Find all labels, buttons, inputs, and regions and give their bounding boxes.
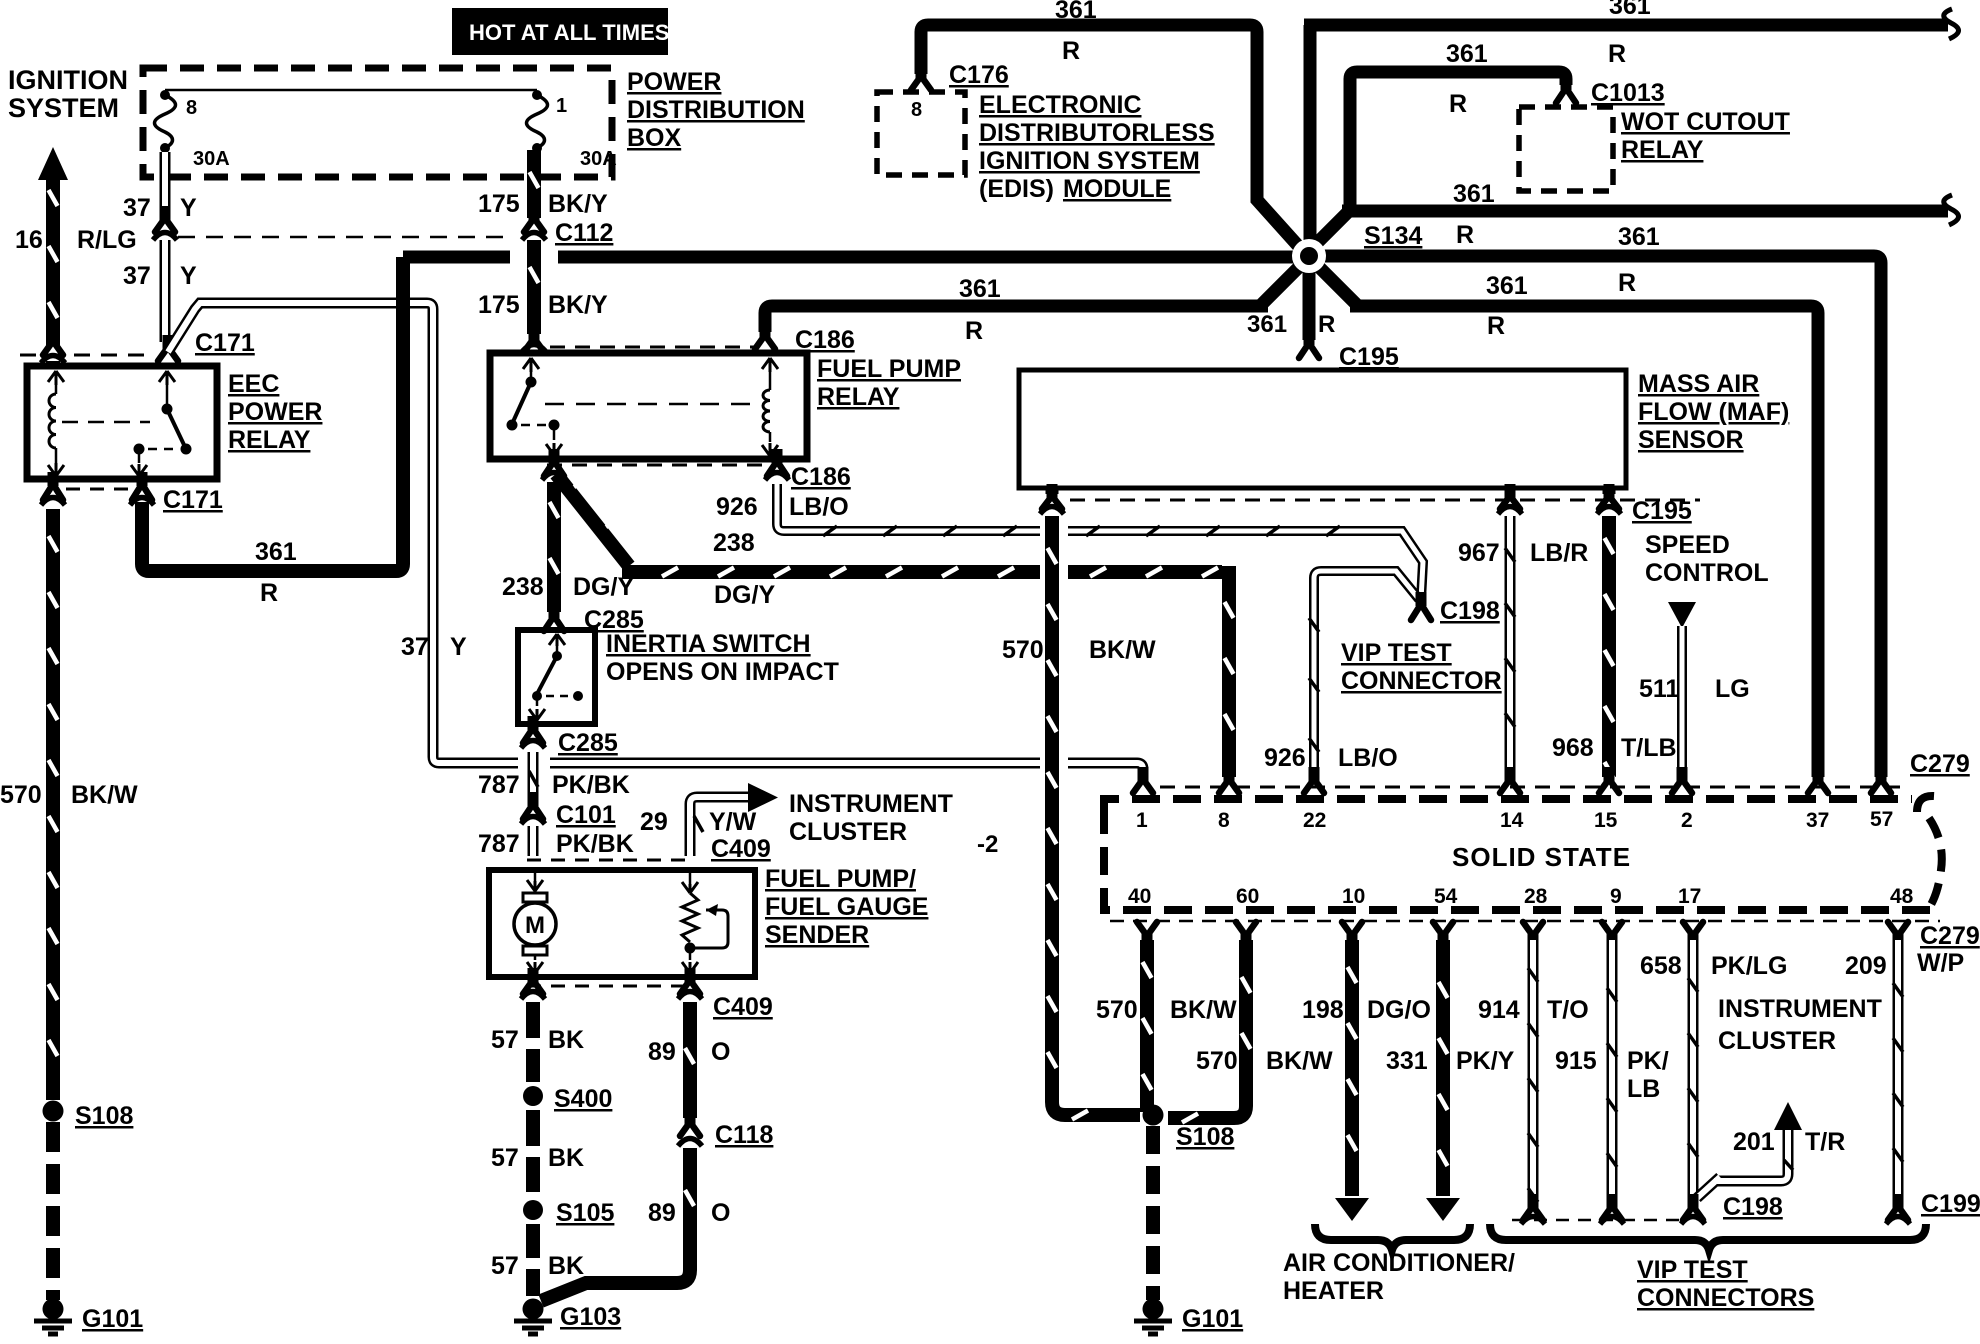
svg-text:BK/W: BK/W [71, 781, 138, 809]
wire 361 R to WOT cutout relay (C1013) [1350, 72, 1566, 215]
svg-text:R: R [1618, 269, 1636, 297]
connector C409 stub 57 [528, 968, 539, 982]
svg-text:INERTIA SWITCH: INERTIA SWITCH [606, 630, 811, 658]
svg-text:C195: C195 [1339, 343, 1399, 371]
arrowhead 198 wire [1335, 1198, 1369, 1221]
inertia switch box [518, 630, 595, 724]
svg-text:C279: C279 [1910, 750, 1970, 778]
svg-text:SPEED: SPEED [1645, 531, 1730, 559]
C279 lower dashed line [1110, 920, 1940, 923]
wire dashed to ground G101 right [1146, 1126, 1160, 1300]
svg-text:570: 570 [1196, 1047, 1238, 1075]
svg-text:C101: C101 [556, 801, 616, 829]
svg-text:W/P: W/P [1917, 949, 1964, 977]
wire 361 R junction to C279 pin 37 [1315, 263, 1818, 777]
svg-text:S108: S108 [1176, 1123, 1234, 1151]
svg-text:DISTRIBUTION: DISTRIBUTION [627, 96, 805, 124]
svg-text:BK/Y: BK/Y [548, 291, 608, 319]
stub C279 pin 54 [1438, 934, 1449, 948]
EEC relay coil-switch dashed link [62, 421, 150, 424]
svg-text:CLUSTER: CLUSTER [1718, 1027, 1836, 1055]
svg-text:37: 37 [123, 194, 151, 222]
splice S134 junction ring [1292, 239, 1326, 273]
svg-text:RELAY: RELAY [1621, 136, 1704, 164]
svg-text:R: R [1318, 311, 1335, 338]
svg-text:361: 361 [1247, 311, 1287, 338]
svg-text:LB/O: LB/O [1338, 744, 1398, 772]
power distribution box (dashed) [143, 68, 612, 177]
svg-text:22: 22 [1303, 809, 1326, 832]
svg-text:361: 361 [1453, 180, 1495, 208]
svg-text:C285: C285 [558, 729, 618, 757]
svg-text:C195: C195 [1632, 497, 1692, 525]
connector stub C279 pin 15 [1604, 767, 1615, 781]
svg-text:361: 361 [1055, 0, 1097, 24]
svg-text:15: 15 [1594, 809, 1618, 832]
wire 175 BK/Y fuse to C112 [527, 150, 541, 218]
C195 dashed line [1070, 499, 1700, 502]
svg-text:PK/BK: PK/BK [556, 830, 634, 858]
svg-text:8: 8 [1218, 809, 1230, 832]
connector C198 lower stub 17 [1688, 1194, 1699, 1208]
svg-text:C198: C198 [1723, 1193, 1783, 1221]
C198 lower dashed line [1512, 1219, 1682, 1222]
wire 787 PK/BK C101 to C409 [528, 826, 539, 856]
arrow from speed control (511) [1668, 602, 1696, 628]
EEC power relay box [27, 366, 217, 479]
connector C112 on 175 wire [529, 206, 540, 220]
svg-text:S400: S400 [554, 1085, 612, 1113]
wire 914 T/O (pin 28) [1528, 940, 1539, 1204]
svg-text:LG: LG [1715, 675, 1750, 703]
svg-text:C171: C171 [195, 329, 255, 357]
wire 361 R junction to C186 (fuel pump relay) [765, 263, 1303, 332]
svg-text:INSTRUMENT: INSTRUMENT [1718, 995, 1882, 1023]
svg-text:FUEL GAUGE: FUEL GAUGE [765, 893, 928, 921]
svg-text:54: 54 [1434, 885, 1458, 908]
fuel pump sender box [489, 870, 755, 977]
svg-text:EEC: EEC [228, 370, 279, 398]
svg-text:29: 29 [640, 808, 668, 836]
splice S105 [523, 1200, 543, 1220]
svg-text:PK/LG: PK/LG [1711, 952, 1787, 980]
svg-text:968: 968 [1552, 734, 1594, 762]
svg-text:BK/W: BK/W [1170, 996, 1237, 1024]
svg-text:C118: C118 [715, 1121, 773, 1149]
hot-at-all-times box [452, 8, 668, 55]
C279 upper dashed line [1160, 786, 1906, 789]
svg-text:S108: S108 [75, 1102, 133, 1130]
svg-text:S134: S134 [1364, 222, 1422, 250]
svg-text:Y: Y [450, 633, 467, 661]
fuel pump relay coil [762, 358, 778, 372]
svg-text:14: 14 [1500, 809, 1524, 832]
svg-text:175: 175 [478, 190, 520, 218]
svg-text:M: M [525, 912, 545, 939]
connector stub C279 pin 1 [1138, 767, 1149, 781]
connector C1013 arrow [1561, 76, 1572, 90]
svg-text:T/LB: T/LB [1621, 734, 1677, 762]
wire 238 DG/Y vertical to inertia switch [547, 482, 561, 612]
wire 198 DG/O (pin 10) [1345, 940, 1359, 1196]
wire 57 BK segment 1 [526, 1002, 540, 1082]
svg-text:9: 9 [1610, 885, 1622, 908]
svg-text:HEATER: HEATER [1283, 1277, 1384, 1305]
MAF sensor box [1019, 370, 1626, 488]
connector C171 on 37 Y wire [163, 335, 174, 349]
stub C279 pin 60 [1241, 934, 1252, 948]
fuel gauge sender resistor [689, 870, 692, 884]
C186 dashed line (bottom) [547, 464, 780, 467]
svg-text:C1013: C1013 [1591, 79, 1665, 107]
svg-text:LB/R: LB/R [1530, 539, 1588, 567]
svg-text:ELECTRONIC: ELECTRONIC [979, 91, 1142, 119]
wire 201 T/R branch [1697, 1128, 1788, 1198]
connector C198 lower stub 9 [1607, 1194, 1618, 1208]
svg-text:8: 8 [911, 99, 922, 121]
svg-text:PK/BK: PK/BK [552, 771, 630, 799]
svg-text:BK/Y: BK/Y [548, 190, 608, 218]
arrow to instrument cluster [748, 783, 778, 812]
svg-text:926: 926 [1264, 744, 1306, 772]
wire 37 Y horizontal run to C279 pin 1 [433, 757, 518, 763]
C112 dashed interface line [178, 236, 510, 239]
connector C186 stub 926 [772, 449, 783, 463]
svg-text:R: R [1487, 312, 1505, 340]
svg-text:C112: C112 [555, 219, 613, 247]
wire 57 BK segment 2 [526, 1110, 540, 1192]
svg-text:G103: G103 [560, 1303, 621, 1331]
wire 915 PK/LB (pin 9) [1607, 940, 1618, 1204]
stub C279 pin 17 [1688, 934, 1699, 948]
svg-text:CONTROL: CONTROL [1645, 559, 1769, 587]
stub C279 pin 48 [1893, 934, 1904, 948]
wire 361 R from EEC relay to S134 [142, 257, 403, 571]
svg-text:RELAY: RELAY [817, 383, 900, 411]
wire 331 PK/Y (pin 54) [1436, 940, 1450, 1196]
fuse 1 30A [532, 90, 542, 100]
svg-text:914: 914 [1478, 996, 1520, 1024]
svg-text:O: O [711, 1038, 730, 1066]
connector C186 arrow [760, 323, 771, 337]
stub C279 pin 28 [1528, 934, 1539, 948]
svg-text:R: R [965, 317, 983, 345]
wire 570 BK/W below EEC to S108 [46, 509, 60, 1100]
svg-text:IGNITION: IGNITION [8, 65, 128, 95]
wire 968 T/LB [1602, 516, 1616, 777]
fuel pump motor [534, 870, 537, 882]
ground G101 (left) [43, 1299, 64, 1320]
svg-text:R: R [260, 579, 278, 607]
svg-text:1: 1 [556, 95, 567, 117]
svg-text:R: R [1062, 37, 1080, 65]
svg-text:175: 175 [478, 291, 520, 319]
ground G101 (right) [1143, 1299, 1164, 1320]
svg-text:37: 37 [123, 262, 151, 290]
wire 361 R top-right (S134 up to squiggle) [1304, 25, 1948, 252]
svg-text:570: 570 [1002, 636, 1044, 664]
svg-text:C186: C186 [795, 326, 855, 354]
wire 16 R/LG / 570 BK/W hatched vertical [46, 178, 60, 346]
svg-text:BK/W: BK/W [1266, 1047, 1333, 1075]
svg-text:DG/Y: DG/Y [714, 581, 775, 609]
svg-text:570: 570 [1096, 996, 1138, 1024]
connector C186 stub 238 [549, 449, 560, 463]
svg-text:FUEL PUMP/: FUEL PUMP/ [765, 865, 916, 893]
svg-text:361: 361 [1486, 272, 1528, 300]
inertia switch contacts [549, 634, 565, 646]
C171 dashed line (lower) [66, 488, 130, 491]
svg-text:57: 57 [1870, 808, 1893, 831]
svg-text:MASS AIR: MASS AIR [1638, 370, 1759, 398]
svg-text:10: 10 [1342, 885, 1365, 908]
wire 361 R diag to y211 run (squiggle) [1307, 211, 1948, 253]
svg-text:16: 16 [15, 226, 43, 254]
svg-text:LB: LB [1627, 1075, 1660, 1103]
wire 16 R/LG arrow from ignition system [38, 147, 68, 180]
svg-text:CLUSTER: CLUSTER [789, 818, 907, 846]
svg-text:8: 8 [186, 97, 197, 119]
stub C279 pin 10 [1347, 934, 1358, 948]
svg-text:CONNECTOR: CONNECTOR [1341, 667, 1502, 695]
wire 361 R top-left (C176 to S134) [921, 25, 1301, 249]
svg-text:238: 238 [713, 529, 755, 557]
wire 570 dashed to ground G101 [46, 1122, 60, 1300]
svg-text:Y/W: Y/W [709, 808, 757, 836]
wire 511 LG [1677, 626, 1687, 777]
svg-text:787: 787 [478, 771, 520, 799]
connector stub C279 pin 57 [1876, 767, 1887, 781]
MAF pin 968 stub [1603, 488, 1616, 494]
wire 89 O lower [541, 1148, 690, 1301]
arrowhead 201 T/R [1774, 1102, 1802, 1130]
svg-text:BK: BK [548, 1144, 584, 1172]
svg-text:C186: C186 [791, 463, 851, 491]
svg-text:VIP TEST: VIP TEST [1341, 639, 1452, 667]
svg-text:POWER: POWER [228, 398, 322, 426]
connector C176 arrow [916, 64, 927, 78]
svg-text:2: 2 [1681, 809, 1693, 832]
EEC relay switch [159, 371, 175, 385]
fuel pump relay box [490, 353, 807, 459]
svg-text:37: 37 [1806, 809, 1829, 832]
svg-text:BK: BK [548, 1252, 584, 1280]
wire 967 LB/R [1505, 516, 1516, 777]
svg-text:331: 331 [1386, 1047, 1428, 1075]
svg-text:361: 361 [255, 538, 297, 566]
connector C101 [528, 792, 539, 806]
fuse 8 30A [160, 90, 170, 100]
squiggle top right [1944, 9, 1959, 39]
fuel relay coil-switch dashed link [545, 403, 760, 406]
EDIS module box (dashed) [877, 92, 965, 175]
wire 787 PK/BK C285 to C101 [528, 752, 539, 800]
connector stub C279 pin 2 [1677, 767, 1688, 781]
svg-text:C409: C409 [713, 993, 773, 1021]
svg-text:40: 40 [1128, 885, 1151, 908]
svg-text:(EDIS): (EDIS) [979, 175, 1054, 203]
svg-text:DISTRIBUTORLESS: DISTRIBUTORLESS [979, 119, 1215, 147]
svg-text:201: 201 [1733, 1128, 1775, 1156]
ground G103 [523, 1299, 544, 1320]
svg-text:DG/O: DG/O [1367, 996, 1431, 1024]
svg-text:511: 511 [1639, 675, 1679, 703]
connector stub C279 pin 22 [1309, 767, 1320, 781]
svg-text:G101: G101 [1182, 1305, 1243, 1333]
wire 209 W/P (pin 48) [1893, 940, 1904, 1204]
svg-text:238: 238 [502, 573, 544, 601]
wire 29 Y/W to instrument cluster [690, 797, 748, 856]
svg-text:C198: C198 [1440, 597, 1500, 625]
WOT cutout relay box (dashed) [1519, 107, 1613, 191]
svg-text:BK/W: BK/W [1089, 636, 1156, 664]
connector C171 lower coil stub [48, 472, 59, 486]
svg-text:C171: C171 [163, 486, 223, 514]
connector C285 lower [528, 716, 539, 730]
svg-text:198: 198 [1302, 996, 1344, 1024]
wire 238 DG/Y branch to C279 pin 8 [556, 474, 1229, 777]
connector stub C279 pin 37 [1813, 767, 1824, 781]
svg-text:FLOW (MAF): FLOW (MAF) [1638, 398, 1789, 426]
brace air conditioner [1315, 1224, 1470, 1250]
wire 175 BK/Y C112 to fuel pump relay [527, 240, 541, 334]
squiggle right (y211) [1944, 195, 1959, 225]
svg-text:57: 57 [491, 1144, 519, 1172]
svg-text:361: 361 [1618, 223, 1660, 251]
wire 361 R junction-right to C279 pin 57 [1322, 256, 1881, 777]
svg-text:SYSTEM: SYSTEM [8, 93, 119, 123]
svg-text:G101: G101 [82, 1305, 143, 1333]
connector C195 arrow [1304, 331, 1315, 345]
C409 dashed line (bottom) [527, 985, 690, 988]
svg-text:WOT CUTOUT: WOT CUTOUT [1621, 108, 1790, 136]
svg-text:209: 209 [1845, 952, 1887, 980]
wire 926 LB/O from C186 to C198 [777, 484, 1040, 531]
wire 926 LB/O from C279 pin 22 to C198 [1314, 571, 1421, 777]
svg-text:926: 926 [716, 493, 758, 521]
wire 37 Y from C112 to C171 [160, 240, 171, 342]
svg-text:DG/Y: DG/Y [573, 573, 634, 601]
svg-text:R: R [1449, 90, 1467, 118]
svg-text:SOLID STATE: SOLID STATE [1452, 842, 1631, 872]
splice S108 (left) [43, 1101, 64, 1122]
svg-text:787: 787 [478, 830, 520, 858]
connector C198 arrow (VIP) [1416, 592, 1427, 606]
svg-text:LB/O: LB/O [789, 493, 849, 521]
svg-text:VIP TEST: VIP TEST [1637, 1256, 1748, 1284]
svg-text:INSTRUMENT: INSTRUMENT [789, 790, 953, 818]
C409 dashed line (top) [527, 859, 690, 862]
svg-text:361: 361 [1609, 0, 1651, 20]
connector C171 on 570 wire [48, 329, 59, 343]
connector C171 lower switch stub [137, 472, 148, 486]
wire 361 R junction down to C195 [1303, 262, 1316, 340]
svg-text:PK/Y: PK/Y [1456, 1047, 1515, 1075]
wire 37 Y from fuse to C112 [160, 152, 171, 218]
arrowhead 331 wire [1426, 1198, 1460, 1221]
connector C112 on 37 Y wire [160, 206, 171, 220]
svg-text:MODULE: MODULE [1063, 175, 1171, 203]
svg-text:1: 1 [1136, 809, 1148, 832]
svg-text:17: 17 [1678, 885, 1701, 908]
svg-text:30A: 30A [580, 148, 617, 170]
brace VIP test connectors [1490, 1224, 1926, 1250]
svg-text:HOT AT ALL TIMES: HOT AT ALL TIMES [469, 20, 669, 45]
wire 570 BK/W C279 pin 60 [1168, 940, 1246, 1118]
svg-text:T/O: T/O [1547, 996, 1589, 1024]
svg-text:30A: 30A [193, 148, 230, 170]
svg-text:C409: C409 [711, 835, 771, 863]
connector C199 stub 48 [1893, 1194, 1904, 1208]
connector C409 stub 89 [685, 968, 696, 982]
MAF pin 967 stub [1505, 488, 1516, 494]
connector stub on relay (175 wire) [529, 326, 540, 340]
svg-text:O: O [711, 1199, 730, 1227]
bus wire between fuses [165, 89, 537, 92]
svg-text:IGNITION SYSTEM: IGNITION SYSTEM [979, 147, 1200, 175]
svg-text:-2: -2 [977, 831, 998, 858]
wire 570 BK/W below C171 into EEC coil [46, 361, 60, 365]
solid state dashed box [1104, 799, 1912, 812]
svg-text:S105: S105 [556, 1199, 614, 1227]
svg-text:R: R [1608, 40, 1626, 68]
svg-text:57: 57 [491, 1026, 519, 1054]
svg-text:Y: Y [180, 194, 197, 222]
svg-text:967: 967 [1458, 539, 1500, 567]
svg-text:915: 915 [1555, 1047, 1597, 1075]
svg-text:POWER: POWER [627, 68, 721, 96]
wire 89 O upper [683, 1002, 697, 1118]
svg-text:57: 57 [491, 1252, 519, 1280]
svg-text:SENSOR: SENSOR [1638, 426, 1744, 454]
stub C279 pin 9 [1607, 934, 1618, 948]
svg-text:Y: Y [180, 262, 197, 290]
wire 57 BK segment 3 [526, 1224, 540, 1296]
svg-text:FUEL PUMP: FUEL PUMP [817, 355, 961, 383]
svg-text:361: 361 [959, 275, 1001, 303]
wire 658 PK/LG (pin 17) [1688, 940, 1699, 1200]
svg-text:RELAY: RELAY [228, 426, 311, 454]
svg-text:AIR CONDITIONER/: AIR CONDITIONER/ [1283, 1249, 1515, 1277]
wire 570 BK/W MAF to S108 [1052, 516, 1140, 1115]
svg-text:OPENS ON IMPACT: OPENS ON IMPACT [606, 658, 839, 686]
wire 37 Y elbow from C171 to vertical run [168, 303, 396, 352]
svg-text:R: R [1456, 221, 1474, 249]
svg-text:PK/: PK/ [1627, 1047, 1669, 1075]
svg-text:89: 89 [648, 1199, 676, 1227]
connector stub C279 pin 14 [1505, 767, 1516, 781]
svg-text:C279: C279 [1920, 922, 1980, 950]
svg-text:SENDER: SENDER [765, 921, 869, 949]
svg-text:37: 37 [401, 633, 429, 661]
svg-text:C176: C176 [949, 61, 1009, 89]
svg-text:C199: C199 [1921, 1190, 1980, 1218]
C186 dashed line (top) [550, 346, 757, 349]
svg-text:BK: BK [548, 1026, 584, 1054]
svg-text:BOX: BOX [627, 124, 682, 152]
svg-text:658: 658 [1640, 952, 1682, 980]
connector C285 upper [549, 604, 560, 618]
svg-text:48: 48 [1890, 885, 1914, 908]
splice S400 [523, 1086, 543, 1106]
stub C279 pin 40 [1142, 934, 1153, 948]
EEC relay coil [48, 371, 64, 385]
wire 570 BK/W C279 pin 40 [1140, 940, 1154, 1104]
svg-text:CONNECTORS: CONNECTORS [1637, 1284, 1814, 1312]
splice S108 (right) [1143, 1105, 1164, 1126]
svg-text:60: 60 [1236, 885, 1259, 908]
svg-text:89: 89 [648, 1038, 676, 1066]
